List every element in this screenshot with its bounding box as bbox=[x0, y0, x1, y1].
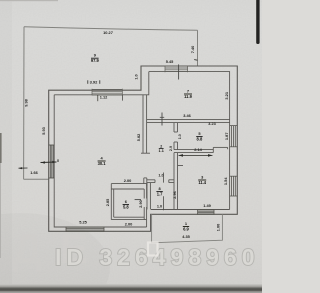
window W1 in top wall of room 30.1 (hatch) bbox=[92, 89, 122, 96]
small rotated label on hallway right wall bbox=[169, 146, 173, 151]
small rotated label left of 11.9 left wall bbox=[135, 74, 139, 79]
svg-text:1.49: 1.49 bbox=[203, 203, 211, 208]
porch right dimension 1.00 rotated bbox=[217, 224, 221, 231]
room label 4/30.1 bbox=[98, 155, 107, 165]
land boundary: bottom stub to building bbox=[24, 178, 49, 180]
room label 9/97.9 (plot) bbox=[91, 53, 100, 63]
svg-text:9.98: 9.98 bbox=[24, 98, 29, 106]
dimension 2.96 rotated on 11.4 left wall bbox=[173, 191, 177, 198]
left wall bbox=[146, 183, 148, 210]
boundary dimension 10.27 bbox=[103, 30, 113, 35]
room label 3/11.4 bbox=[198, 174, 206, 184]
dimension 2.90 rotated right of room 5.8 bbox=[139, 200, 143, 207]
svg-text:2.9: 2.9 bbox=[169, 146, 173, 151]
scan artifact: dark bar top right edge bbox=[256, 0, 259, 44]
top wall with door gap bbox=[147, 180, 155, 183]
dimension 2.85 rotated left of room 5.8 bbox=[106, 199, 110, 206]
svg-text:2.00: 2.00 bbox=[125, 221, 133, 226]
svg-text:2.00: 2.00 bbox=[124, 178, 132, 183]
room label 8/1.7 bbox=[157, 186, 163, 196]
bright watermark box glyph bbox=[148, 243, 158, 256]
door leaf line WC bottom door bbox=[163, 196, 165, 210]
land boundary: top line bbox=[24, 27, 198, 31]
wall: exterior outline inner edge bbox=[54, 72, 229, 227]
window in bottom-left wall (5.25 hatch) bbox=[66, 227, 104, 232]
interior wall: left wall of room 11.4 (x174-177.5, y152.6-208.4) bbox=[174, 153, 183, 210]
svg-text:3.23: 3.23 bbox=[208, 122, 215, 126]
porch dimension 4.35 bbox=[182, 234, 190, 239]
interior wall: room 30.1 right / hallway left (x143-147) bbox=[143, 95, 147, 186]
svg-text:2.90: 2.90 bbox=[139, 200, 143, 207]
dimension 1.12 below window W1 bbox=[100, 94, 108, 99]
svg-text:30.1: 30.1 bbox=[98, 161, 107, 166]
svg-text:1.0: 1.0 bbox=[178, 134, 182, 139]
soft corner shading bbox=[0, 213, 110, 293]
tick crossing top wall near window W2 bbox=[178, 64, 180, 79]
window/door in bottom-right wall (1.49 hatch) bbox=[198, 209, 214, 215]
dimension 3.21 rotated on right wall of room 11.9 bbox=[224, 91, 229, 99]
svg-text:2.14: 2.14 bbox=[194, 147, 202, 152]
dimension 2.00 below room 5.8 bbox=[125, 221, 133, 226]
small arrow crossing left boundary bbox=[19, 167, 28, 169]
window in left wall (ladder hatch, 5.93 area) bbox=[49, 145, 55, 178]
land boundary: left line bbox=[23, 27, 25, 180]
dimension 1.54 rotated left of window bbox=[223, 177, 228, 185]
dimension 3.23 below wall bbox=[208, 122, 215, 126]
watermark ID 326498960 bbox=[55, 244, 260, 270]
room label 2/1.1 (hallway) bbox=[159, 144, 164, 153]
window in right wall (lower, 1.54) bbox=[230, 176, 238, 196]
svg-text:3.21: 3.21 bbox=[224, 91, 229, 99]
dimension 5.93 rotated along left wall bbox=[41, 126, 46, 134]
svg-text:5.93: 5.93 bbox=[41, 126, 46, 134]
svg-text:1.7: 1.7 bbox=[157, 191, 163, 196]
svg-text:2.85: 2.85 bbox=[106, 199, 110, 206]
svg-text:10.27: 10.27 bbox=[103, 30, 113, 35]
door tick of room 5.8 bbox=[135, 199, 141, 201]
faint big watermark glyphs bbox=[12, 225, 88, 272]
dimension 3.46 above wall bbox=[183, 113, 191, 118]
room label 6/5.8 bbox=[123, 199, 129, 209]
svg-text:1.87: 1.87 bbox=[224, 133, 229, 141]
svg-text:3.92: 3.92 bbox=[90, 80, 99, 85]
svg-text:4.35: 4.35 bbox=[182, 234, 190, 239]
dimension arrow crossing left wall window bbox=[41, 161, 57, 164]
svg-text:2.96: 2.96 bbox=[173, 191, 177, 198]
svg-text:6.9: 6.9 bbox=[183, 226, 189, 231]
window W2 in top wall of room 11.9 (hatch) bbox=[165, 66, 188, 73]
dimension 1.87 rotated left of window bbox=[224, 133, 229, 141]
svg-text:1.00: 1.00 bbox=[217, 224, 221, 231]
svg-text:1.12: 1.12 bbox=[100, 94, 108, 99]
dimension 3.92 above window W1 bbox=[90, 80, 99, 85]
room label 7/11.9 bbox=[184, 88, 192, 98]
porch outline (6.9) bbox=[152, 214, 223, 243]
svg-text:5.45: 5.45 bbox=[166, 59, 174, 64]
boundary dimension 1.66 bbox=[30, 170, 38, 175]
svg-text:1.1: 1.1 bbox=[159, 149, 164, 153]
bottom photo edge band bbox=[0, 284, 262, 293]
window in right wall (upper, 1.87) bbox=[230, 126, 238, 147]
boundary dimension 7.40 rotated bbox=[190, 46, 195, 54]
svg-text:11.4: 11.4 bbox=[198, 180, 206, 185]
svg-text:1.0: 1.0 bbox=[135, 74, 139, 79]
svg-text:8.8: 8.8 bbox=[197, 136, 203, 141]
svg-text:5.8: 5.8 bbox=[123, 204, 129, 209]
svg-text:11.9: 11.9 bbox=[184, 94, 192, 99]
dimension 5.45 above window W2 bbox=[166, 59, 174, 64]
door width label 1.0 above WC door bbox=[158, 174, 163, 178]
svg-text:97.9: 97.9 bbox=[91, 58, 100, 63]
svg-text:Д: Д bbox=[12, 225, 42, 272]
svg-text:7.40: 7.40 bbox=[190, 46, 195, 54]
dimension 1.49 above bbox=[203, 203, 211, 208]
room label 5/8.8 bbox=[197, 131, 203, 141]
small mark above arrow bbox=[57, 159, 59, 162]
room 5.8 box walls bbox=[111, 184, 146, 220]
room label 1/6.9 (porch) bbox=[183, 221, 189, 231]
WC room 1.7 walls bbox=[147, 180, 174, 210]
dimension 5.25 above bottom wall bbox=[79, 220, 87, 225]
label 1.0 below WC bottom bbox=[157, 205, 162, 209]
svg-text:3.46: 3.46 bbox=[183, 113, 191, 118]
svg-text:1.0: 1.0 bbox=[158, 174, 163, 178]
svg-text:7: 7 bbox=[187, 88, 189, 93]
dimension 5.82 rotated inside room 30.1 bbox=[137, 134, 141, 141]
scan artifact: faint top edge smudge bbox=[0, 0, 58, 1]
door leaf line WC bbox=[163, 173, 165, 183]
svg-text:5.82: 5.82 bbox=[137, 134, 141, 141]
svg-text:1.66: 1.66 bbox=[30, 170, 38, 175]
dimension 2.14 with arrows bbox=[194, 147, 202, 152]
boundary dimension 9.98 rotated bbox=[24, 98, 29, 106]
svg-text:2: 2 bbox=[160, 144, 162, 148]
wall: exterior outline outer edge bbox=[49, 66, 238, 231]
svg-text:1.0: 1.0 bbox=[157, 205, 162, 209]
svg-text:1.54: 1.54 bbox=[223, 177, 228, 185]
land boundary: right line (7.40) bbox=[197, 30, 199, 66]
tick marks for 3.92 bbox=[87, 80, 89, 84]
tick at bottom of 7.40 line bbox=[194, 59, 197, 62]
scan artifact: dark left edge segment bbox=[0, 133, 2, 163]
svg-text:5.25: 5.25 bbox=[79, 220, 87, 225]
interior wall: room 8.8 / room 11.4 (y149.6-152.6) with door step bbox=[174, 147, 228, 152]
wall stub at hallway bottom left bbox=[141, 152, 150, 154]
interior wall: bottom of room 11.9 (y119.6-122.6) bbox=[147, 120, 230, 123]
interior wall: hallway right / room 8.8 left (x174-177.5) bbox=[174, 123, 178, 150]
dimension 2.00 above room 5.8 bbox=[124, 178, 132, 183]
door width label at room 8.8 door bbox=[178, 134, 182, 139]
door tick crossing wall at x162 bbox=[161, 113, 163, 126]
